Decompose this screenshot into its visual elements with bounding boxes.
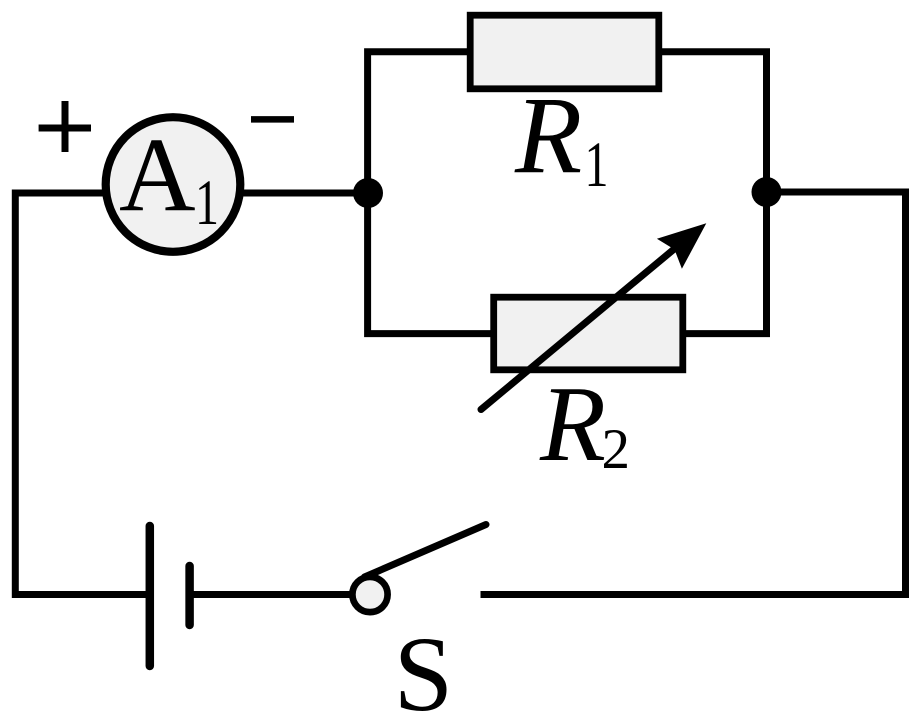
wire: ammeter to left junction node (130, 190, 368, 197)
resistor R2 body (rheostat) (494, 297, 683, 370)
wire: left branch vertical with top corner to R1 and bottom corner to R2 (368, 52, 495, 334)
svg-text:2: 2 (602, 418, 631, 481)
svg-text:R: R (539, 365, 606, 484)
wire: left outer loop (ammeter row to bottom-left, to battery) (15, 193, 146, 595)
svg-text:S: S (394, 616, 454, 719)
resistor R1 body (470, 15, 659, 89)
rheostat arrow shaft (481, 248, 676, 410)
svg-text:R: R (514, 74, 582, 196)
battery long plate (positive) (146, 526, 155, 666)
rheostat arrow head (657, 223, 706, 269)
plus sign of ammeter (39, 101, 91, 152)
battery short plate (negative) (185, 566, 194, 625)
svg-text:1: 1 (195, 167, 219, 239)
ammeter A1 circle (106, 117, 241, 252)
wire: right junction to outer right, down and along bottom to switch (481, 192, 906, 595)
svg-text:A: A (119, 116, 196, 233)
wire: battery to switch (194, 591, 371, 598)
minus sign of ammeter (251, 116, 294, 123)
wire: R1 right side, right branch vertical, to R2 right side (658, 52, 767, 334)
node: right junction dot (752, 177, 782, 207)
switch lever (365, 525, 487, 578)
switch S circle (352, 577, 387, 612)
svg-text:1: 1 (585, 129, 609, 201)
node: left junction dot (353, 178, 383, 208)
